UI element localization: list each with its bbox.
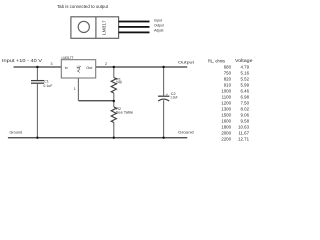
svg-text:See Table: See Table [116, 111, 133, 115]
svg-text:10.63: 10.63 [238, 125, 249, 130]
svg-text:9.58: 9.58 [241, 119, 250, 124]
svg-text:2200: 2200 [221, 137, 231, 142]
svg-text:C1: C1 [44, 79, 49, 83]
svg-text:LM317T: LM317T [62, 55, 74, 60]
svg-text:1100: 1100 [222, 95, 232, 100]
svg-text:680: 680 [224, 65, 232, 70]
svg-text:Adj: Adj [76, 66, 81, 73]
svg-text:In: In [65, 66, 68, 70]
svg-text:910: 910 [224, 83, 232, 88]
svg-text:1: 1 [74, 87, 76, 91]
svg-text:5.99: 5.99 [241, 83, 250, 88]
svg-text:Voltage: Voltage [235, 58, 253, 63]
svg-text:Output: Output [178, 60, 195, 65]
svg-text:240: 240 [116, 80, 122, 84]
svg-text:Tab is connected to output: Tab is connected to output [57, 4, 109, 9]
svg-text:1.0uF: 1.0uF [170, 96, 178, 100]
svg-text:Adjust: Adjust [154, 29, 163, 33]
svg-text:1800: 1800 [221, 125, 231, 130]
svg-text:Input +10 - 40 V: Input +10 - 40 V [2, 58, 43, 63]
svg-text:1000: 1000 [221, 89, 231, 94]
svg-text:750: 750 [224, 71, 232, 76]
svg-text:Out: Out [86, 66, 93, 70]
svg-text:Output: Output [154, 24, 164, 28]
svg-text:8.02: 8.02 [241, 107, 250, 112]
svg-text:2000: 2000 [221, 131, 231, 136]
svg-text:1600: 1600 [221, 119, 231, 124]
svg-text:5.16: 5.16 [241, 71, 250, 76]
svg-text:Ground: Ground [178, 130, 194, 135]
svg-text:7.50: 7.50 [241, 101, 250, 106]
svg-text:1200: 1200 [221, 101, 231, 106]
svg-text:Ground: Ground [10, 130, 23, 134]
svg-text:6.98: 6.98 [241, 95, 250, 100]
svg-text:820: 820 [224, 77, 232, 82]
svg-text:RL, ohms: RL, ohms [208, 58, 225, 63]
svg-text:1500: 1500 [221, 113, 231, 118]
svg-text:6.46: 6.46 [241, 89, 250, 94]
svg-text:5.52: 5.52 [241, 77, 250, 82]
svg-text:Input: Input [154, 18, 162, 22]
svg-text:12.71: 12.71 [238, 137, 249, 142]
svg-text:0.1uF: 0.1uF [43, 84, 53, 88]
svg-text:9.06: 9.06 [241, 113, 250, 118]
svg-text:3: 3 [51, 62, 53, 66]
svg-text:2: 2 [105, 62, 107, 66]
svg-text:1300: 1300 [221, 107, 231, 112]
svg-text:11.67: 11.67 [238, 131, 249, 136]
svg-text:LM317: LM317 [102, 20, 107, 35]
svg-text:4.79: 4.79 [241, 65, 250, 70]
